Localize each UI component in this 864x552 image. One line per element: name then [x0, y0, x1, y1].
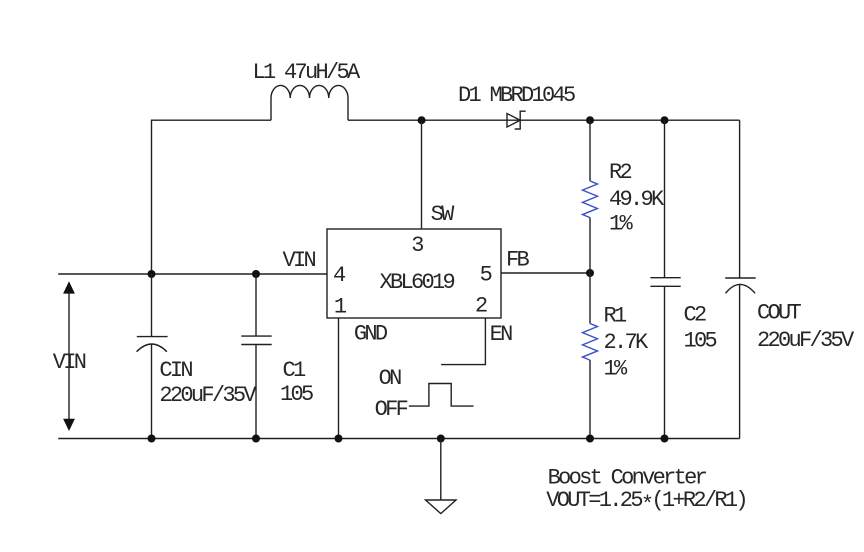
svg-text:FB: FB: [506, 248, 530, 273]
VIN voltage arrow (double headed): [63, 281, 75, 431]
node FB junction dot: [586, 269, 594, 277]
svg-text:VIN: VIN: [53, 350, 86, 375]
EN control waveform: [409, 384, 474, 407]
node C2 top junction dot: [661, 116, 669, 124]
svg-text:COUT: COUT: [757, 301, 802, 326]
node R1 bottom junction dot: [586, 435, 594, 443]
svg-text:220uF/35V: 220uF/35V: [159, 383, 257, 408]
node C1 bottom junction dot: [252, 435, 260, 443]
node CIN bottom junction dot: [148, 435, 156, 443]
ground: [426, 439, 457, 514]
pin 2 EN wire: [441, 318, 485, 365]
label R1 value: [604, 304, 650, 382]
pin 5 FB wire: [501, 272, 590, 274]
wire top rail from left corner to inductor L1: [152, 120, 272, 274]
svg-text:VIN: VIN: [283, 248, 316, 273]
wire VIN rail: [58, 273, 327, 275]
resistor R2: [583, 181, 598, 218]
pin 1 GND stem: [338, 318, 340, 439]
svg-text:SW: SW: [431, 202, 456, 227]
capacitor C2: [650, 120, 680, 438]
node C2 bottom junction dot: [661, 435, 669, 443]
label CIN value: [159, 358, 257, 408]
wire diode cathode to top-right corner: [520, 119, 739, 121]
node SW junction dot: [418, 116, 426, 124]
wire R2 top lead: [589, 120, 591, 181]
svg-text:2: 2: [475, 293, 487, 318]
svg-text:105: 105: [684, 329, 717, 354]
label C1 value: [280, 358, 313, 407]
label COUT value: [757, 301, 855, 354]
svg-text:L1 47uH/5A: L1 47uH/5A: [253, 60, 362, 85]
svg-text:R2: R2: [609, 160, 632, 185]
svg-text:ON: ON: [379, 366, 402, 391]
wire right vertical drop to COUT: [739, 120, 741, 278]
wire inductor to diode anode: [348, 119, 520, 121]
label C2 value: [684, 303, 717, 354]
inductor L1: [271, 85, 348, 120]
svg-text:2.7K: 2.7K: [604, 330, 650, 355]
node CIN top junction dot: [148, 270, 156, 278]
op-amp U1 XBL6019 body: [327, 229, 501, 318]
svg-text:EN: EN: [490, 322, 513, 347]
svg-text:XBL6019: XBL6019: [380, 270, 455, 295]
node GND pin junction dot: [335, 435, 343, 443]
wire R1 bottom lead: [589, 360, 591, 438]
svg-text:GND: GND: [354, 322, 388, 347]
svg-text:R1: R1: [604, 304, 628, 329]
svg-text:VOUT=1.25*(1+R2/R1): VOUT=1.25*(1+R2/R1): [546, 488, 746, 518]
svg-text:105: 105: [280, 382, 313, 407]
svg-text:3: 3: [411, 233, 423, 258]
svg-text:C2: C2: [684, 303, 707, 328]
node R2 top junction dot: [586, 116, 594, 124]
svg-text:CIN: CIN: [159, 358, 192, 383]
svg-text:49.9K: 49.9K: [609, 187, 665, 212]
svg-text:OFF: OFF: [375, 397, 408, 422]
svg-text:C1: C1: [283, 358, 307, 383]
node ground symbol junction dot: [437, 435, 445, 443]
resistor R1: [583, 324, 598, 361]
svg-text:D1 MBRD1045: D1 MBRD1045: [458, 83, 575, 108]
svg-text:1%: 1%: [609, 212, 634, 237]
svg-text:5: 5: [480, 263, 492, 288]
svg-text:Boost Converter: Boost Converter: [548, 466, 707, 491]
wire bottom ground rail: [58, 438, 739, 440]
capacitor C1: [241, 274, 271, 439]
diode D1 (Schottky): [507, 111, 526, 129]
svg-text:220uF/35V: 220uF/35V: [757, 328, 855, 353]
svg-text:1%: 1%: [604, 356, 629, 381]
label R2 value: [609, 160, 665, 237]
pin 3 SW stem: [421, 120, 423, 229]
wire R2 bottom lead: [589, 218, 591, 273]
capacitor CIN: [137, 274, 168, 439]
node C1 top junction dot: [252, 270, 260, 278]
capacitor COUT: [725, 278, 756, 439]
wire R1 top lead: [589, 273, 591, 324]
